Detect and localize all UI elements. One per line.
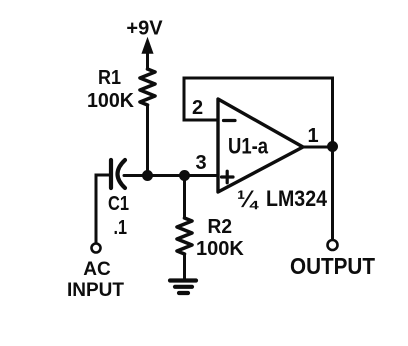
wire op-amp output	[303, 146, 333, 149]
feedback wire pin2 to output	[184, 78, 333, 146]
svg-text:INPUT: INPUT	[67, 280, 124, 301]
svg-text:LM324: LM324	[266, 186, 328, 211]
node junction at R2	[180, 171, 190, 181]
wire output down	[331, 147, 334, 240]
svg-text:OUTPUT: OUTPUT	[290, 253, 375, 279]
wire C1 to pin 3	[124, 174, 218, 177]
output terminal	[328, 240, 338, 250]
svg-text:100K: 100K	[87, 90, 135, 112]
svg-text:3: 3	[196, 152, 207, 174]
op-amp U1-a	[218, 99, 303, 192]
AC input terminal	[92, 244, 101, 253]
ground	[170, 281, 196, 294]
power arrow terminal	[143, 39, 153, 69]
svg-text:¼: ¼	[237, 186, 259, 213]
svg-text:100K: 100K	[196, 238, 244, 260]
wire R2 to ground	[183, 254, 186, 280]
svg-text:1: 1	[307, 125, 318, 147]
svg-text:R1: R1	[98, 67, 121, 89]
svg-text:R2: R2	[208, 216, 233, 238]
svg-text:AC: AC	[83, 259, 111, 280]
non-inverting input plus sign	[222, 171, 234, 183]
1/4 LM324 label	[237, 186, 328, 213]
wire node to R2	[183, 176, 186, 219]
capacitor C1	[111, 160, 125, 188]
svg-text:+9V: +9V	[126, 18, 163, 40]
svg-text:.1: .1	[114, 217, 128, 239]
AC INPUT label	[67, 259, 124, 301]
node junction at output	[328, 142, 338, 152]
wire R1 bottom to node	[146, 105, 149, 176]
svg-text:C1: C1	[108, 193, 129, 215]
svg-text:U1-a: U1-a	[228, 134, 269, 159]
inverting input minus sign	[224, 119, 236, 122]
resistor R1	[140, 69, 155, 105]
wire input to C1	[96, 175, 109, 243]
svg-text:2: 2	[192, 97, 203, 119]
node junction at R1	[143, 171, 153, 181]
resistor R2	[177, 218, 192, 254]
